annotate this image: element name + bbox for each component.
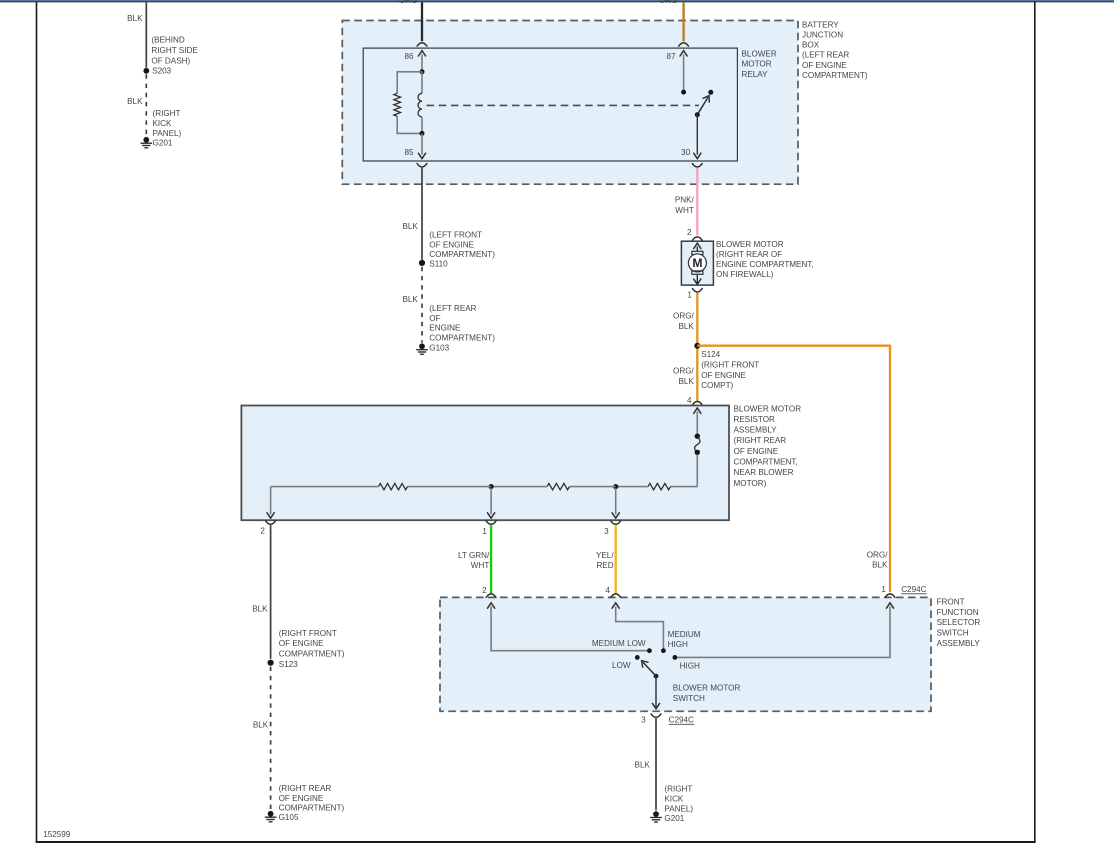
svg-text:C294C: C294C [901,585,926,594]
svg-text:COMPARTMENT,: COMPARTMENT, [734,458,798,467]
svg-text:BLK: BLK [872,560,888,569]
wire to resistor R3 [671,486,698,488]
label BLOWER MOTOR RELAY [742,49,777,79]
svg-text:1: 1 [482,527,487,536]
wire BLK to S203 (from top) [145,2,147,67]
wire BLK dashed S203 to G201 [145,74,147,136]
svg-text:WHT: WHT [675,206,694,215]
svg-text:3: 3 [641,716,646,725]
svg-text:SWITCH: SWITCH [937,629,969,638]
wire contact to pin 30 [696,115,698,155]
connector resistor assembly pin 4 [692,402,702,405]
node coil bottom [420,131,425,136]
arrow into switch pin 1 [886,603,893,608]
arrow into switch pin 2 [488,603,495,608]
splice S123 [268,660,274,666]
label ORG/BLK [673,366,695,386]
svg-text:(RIGHT FRONT: (RIGHT FRONT [279,629,337,638]
svg-text:MEDIUM LOW: MEDIUM LOW [592,639,646,648]
label G103 [429,343,449,352]
wire common to pin 3 [655,676,657,707]
pin number 4 (switch) [605,586,610,595]
arrow out pin 3 [612,513,619,518]
svg-text:C294C: C294C [669,716,694,725]
svg-text:MOTOR: MOTOR [742,60,772,69]
svg-text:(LEFT REAR: (LEFT REAR [802,51,849,60]
svg-text:COMPARTMENT): COMPARTMENT) [802,71,868,80]
front function selector switch assembly box (dashed) [440,597,931,711]
svg-text:FUNCTION: FUNCTION [937,608,979,617]
svg-text:(LEFT REAR: (LEFT REAR [429,304,476,313]
svg-text:PANEL): PANEL) [153,129,182,138]
svg-text:OF ENGINE: OF ENGINE [701,371,746,380]
wire pin 4 to thermal limiter [696,412,698,434]
svg-text:ON FIREWALL): ON FIREWALL) [716,270,774,279]
pin number 2 (blower motor) [687,228,692,237]
arrow into pin 86 [418,51,425,56]
wire ORG feed to relay pin 87 [682,2,684,41]
svg-text:YEL/: YEL/ [596,551,614,560]
svg-text:LOW: LOW [612,661,631,670]
svg-text:(RIGHT FRONT: (RIGHT FRONT [701,360,759,369]
pin number 1 [482,527,487,536]
svg-text:SWITCH: SWITCH [673,694,705,703]
svg-text:85: 85 [404,148,414,157]
wire BLK dashed S123 to G105 [270,667,272,810]
svg-text:ENGINE COMPARTMENT,: ENGINE COMPARTMENT, [716,260,814,269]
pin number 3 [604,527,609,536]
connector switch pin 4 [611,594,621,597]
blower motor box [681,241,713,285]
pin number 1 (switch) [881,585,886,594]
wire pin 2 to MEDIUM LOW contact [491,606,648,651]
svg-text:HIGH: HIGH [680,662,700,671]
connector label C294C [901,585,927,594]
svg-text:OF: OF [429,314,440,323]
svg-text:S203: S203 [152,66,171,75]
label HIGH [680,662,700,671]
label BLK [635,761,651,770]
svg-text:BLK: BLK [678,377,694,386]
splice S124 [694,343,700,349]
diagram frame right border [1034,2,1036,843]
label (LEFT REAR OF ENGINE COMPARTMENT) [429,304,495,342]
wire R2 to node pin 1 [491,486,547,488]
relay contact 30 node [695,112,700,117]
contact LOW [635,655,640,660]
label S123 [279,660,298,669]
wire coil top lead [421,72,423,94]
wire ORG/BLK S124 branch to selector switch [697,346,890,593]
arrow out pin 85 [418,153,425,158]
wire BLK relay 85 to S110 [421,168,423,260]
svg-text:(RIGHT: (RIGHT [664,784,692,793]
wire PNK/WHT relay 30 to blower motor [696,168,698,235]
svg-text:BLOWER MOTOR: BLOWER MOTOR [673,684,741,693]
connector pin 87 [679,43,689,46]
thermal limiter top terminal [695,434,700,439]
svg-text:KICK: KICK [664,794,684,803]
label (RIGHT FRONT OF ENGINE COMPARTMENT) [279,629,345,659]
svg-text:OF ENGINE: OF ENGINE [734,447,779,456]
pin number 2 (switch) [482,586,487,595]
resistor R3 [648,483,671,489]
svg-text:G201: G201 [664,814,684,823]
battery junction box (dashed) [342,21,798,185]
connector label C294C [669,716,695,725]
wire BLK switch pin 3 to G201 [655,718,657,810]
svg-text:S124: S124 [701,350,720,359]
resistor R2 [547,483,570,489]
svg-text:RESISTOR: RESISTOR [734,415,776,424]
splice S110 [419,260,425,266]
svg-text:COMPT): COMPT) [701,381,733,390]
wire branch to relay resistor [397,72,422,94]
svg-text:S123: S123 [279,660,298,669]
svg-text:S110: S110 [429,260,448,269]
relay mechanical linkage (dashed) [427,104,700,106]
svg-text:(RIGHT REAR OF: (RIGHT REAR OF [716,250,782,259]
wire BLK dashed S110 to G103 [421,267,423,343]
connector switch pin 3 [651,714,661,717]
top window border strip [0,0,1114,1]
resistor R1 [379,483,408,489]
svg-text:G201: G201 [153,139,173,148]
svg-text:COMPARTMENT): COMPARTMENT) [429,250,495,259]
label YEL/RED [596,551,614,570]
svg-text:OF ENGINE: OF ENGINE [429,240,474,249]
svg-text:BLK: BLK [252,605,268,614]
svg-text:(BEHIND: (BEHIND [151,36,185,45]
arrow into motor [694,243,701,248]
arrow into switch pin 4 [612,603,619,608]
svg-text:OF ENGINE: OF ENGINE [279,639,324,648]
svg-text:M: M [692,256,702,270]
wire ORG/BLK motor to resistor assembly [696,293,698,401]
arrow out pin 30 [694,153,701,158]
wire pin 1 to HIGH contact [677,606,891,657]
resistor (relay coil suppression) [394,93,401,116]
svg-text:BLOWER: BLOWER [742,49,777,58]
label S203 [152,66,171,75]
label BATTERY JUNCTION BOX (LEFT REAR OF ENGINE COMPARTMENT) [802,20,868,80]
label (BEHIND RIGHT SIDE OF DASH) [151,36,198,66]
svg-text:30: 30 [681,148,691,157]
connector blower motor pin 2 [692,237,702,240]
pin number 1 (blower motor) [687,291,692,300]
label ORG (cut off at top) [659,0,678,5]
switch common node [654,674,659,679]
thermal limiter element [695,437,700,452]
connector blower motor pin 1 [692,289,702,292]
diagram frame left border [36,2,38,843]
svg-text:NEAR BLOWER: NEAR BLOWER [734,468,794,477]
label (LEFT FRONT OF ENGINE COMPARTMENT) [429,231,495,260]
relay switch blade [697,98,707,115]
svg-text:HIGH: HIGH [668,640,688,649]
svg-text:BLK: BLK [127,97,143,106]
arrow on relay blade [703,94,712,102]
pin number 85 [404,148,414,157]
svg-text:4: 4 [605,586,610,595]
arrow into resistor assembly pin 4 [694,408,701,413]
node pin 3 tap [613,484,618,489]
svg-text:ORG: ORG [399,0,418,5]
svg-text:OF DASH): OF DASH) [151,56,190,65]
ground G105 [265,811,277,822]
motor brush bottom [692,271,703,274]
label (RIGHT KICK PANEL) [153,109,182,138]
svg-text:RED: RED [596,561,613,570]
label G105 [279,813,299,822]
wire pin 4 to MEDIUM HIGH contact [616,606,664,649]
svg-text:BLK: BLK [635,761,651,770]
connector pin 30 (below relay) [692,164,702,167]
pin number 3 (switch) [641,716,646,725]
arrow on switch blade (points to LOW) [639,658,648,667]
label (RIGHT REAR OF ENGINE COMPARTMENT) [279,784,345,812]
wire motor lead bottom [696,274,698,283]
svg-text:(RIGHT: (RIGHT [153,109,181,118]
svg-text:OF ENGINE: OF ENGINE [802,61,847,70]
svg-text:BLOWER MOTOR: BLOWER MOTOR [716,240,784,249]
svg-text:BOX: BOX [802,41,820,50]
wire drop to pin 3 [615,488,617,514]
connector pin 85 (below relay) [417,164,427,167]
label MEDIUM HIGH [668,630,701,649]
svg-text:BATTERY: BATTERY [802,20,839,29]
wire node to pin 85 [421,133,423,154]
arrow into pin 87 [680,51,687,56]
arrow out switch pin 3 [652,703,659,708]
relay contact 87 [681,90,686,95]
svg-text:BLK: BLK [127,14,143,23]
svg-text:1: 1 [881,585,886,594]
label MEDIUM LOW [592,639,646,648]
wire node to resistor R1 [408,486,492,488]
svg-text:G105: G105 [279,813,299,822]
label S110 [429,260,448,269]
label LOW [612,661,631,670]
arrow out pin 2 [267,513,274,518]
thermal limiter bottom terminal [695,450,700,455]
wire inside relay pin 86 to coil [421,54,423,72]
connector resistor assembly pin 2 [266,521,276,524]
wire R1 to pin 2 drop [271,486,379,488]
node coil top [420,69,425,74]
svg-text:PNK/: PNK/ [675,195,695,204]
connector switch pin 2 [486,594,496,597]
label BLK [402,295,418,304]
svg-text:PANEL): PANEL) [664,804,693,813]
label BLOWER MOTOR (RIGHT REAR OF ENGINE COMPARTMENT, ON FIREWALL) [716,240,814,279]
svg-text:COMPARTMENT): COMPARTMENT) [279,803,345,812]
svg-text:2: 2 [260,527,265,536]
svg-text:ORG/: ORG/ [673,366,695,375]
pin number 2 [260,527,265,536]
wire drop to pin 2 [270,487,272,515]
svg-text:ORG: ORG [659,0,678,5]
connector resistor assembly pin 1 [486,521,496,524]
relay coil L1 [418,93,422,117]
svg-text:ENGINE: ENGINE [429,324,461,333]
svg-text:ASSEMBLY: ASSEMBLY [734,426,778,435]
wire relay resistor to node [397,116,422,133]
blower motor relay box [363,48,737,161]
svg-text:RIGHT SIDE: RIGHT SIDE [151,46,198,55]
svg-text:BLK: BLK [678,322,694,331]
svg-text:BLK: BLK [253,720,269,729]
label BLK [127,97,143,106]
wire BLK resistor pin 2 to S123 [270,525,272,659]
wire coil bottom lead [421,117,423,133]
ground G201 (bottom) [650,811,662,822]
contact HIGH [673,655,678,660]
motor M1 armature [688,254,706,272]
label (RIGHT KICK PANEL) [664,784,693,813]
svg-text:BLOWER MOTOR: BLOWER MOTOR [734,404,802,413]
svg-text:SELECTOR: SELECTOR [937,618,981,627]
motor brush top [692,251,703,254]
wire thermal limiter to resistor chain [696,455,698,487]
svg-text:WHT: WHT [471,561,490,570]
connector pin 86 [417,43,427,46]
pin number 30 [681,148,691,157]
label ORG/BLK [673,311,695,331]
label G201 [664,814,684,823]
svg-text:3: 3 [604,527,609,536]
svg-text:BLK: BLK [402,295,418,304]
label M (motor) [692,256,702,270]
wire R3 to node pin 3 [616,486,648,488]
svg-text:KICK: KICK [153,119,173,128]
svg-text:COMPARTMENT): COMPARTMENT) [279,650,345,659]
svg-text:COMPARTMENT): COMPARTMENT) [429,333,495,342]
ground G103 [416,343,428,354]
relay contact (blade tip rest) [708,90,713,95]
wire YEL/RED to selector switch [615,525,617,594]
svg-text:RELAY: RELAY [742,70,769,79]
label BLOWER MOTOR SWITCH [673,684,741,703]
label PNK/WHT [675,195,695,214]
svg-text:(LEFT FRONT: (LEFT FRONT [429,231,482,240]
label BLK [252,605,268,614]
node pin 1 tap [489,484,494,489]
svg-text:1: 1 [687,291,692,300]
svg-text:ORG/: ORG/ [673,311,695,320]
pin number 4 (resistor assembly) [687,396,692,405]
svg-text:(RIGHT REAR: (RIGHT REAR [734,436,787,445]
arrow out of motor [694,279,701,284]
wire inside relay pin 87 to contact [683,54,685,92]
diagram frame bottom border [36,841,1036,843]
svg-text:4: 4 [687,396,692,405]
svg-text:2: 2 [687,228,692,237]
figure number 152599 [43,830,71,839]
svg-text:BLK: BLK [402,222,418,231]
pin number 86 [404,52,414,61]
svg-text:152599: 152599 [43,830,71,839]
svg-text:ORG/: ORG/ [867,550,889,559]
svg-text:MEDIUM: MEDIUM [668,630,701,639]
connector resistor assembly pin 3 [611,521,621,524]
pin number 87 [666,52,676,61]
wire drop to pin 1 [490,488,492,514]
wire ORG feed to relay pin 86 [421,2,423,41]
label BLK [127,14,143,23]
contact MEDIUM LOW [647,648,652,653]
svg-text:2: 2 [482,586,487,595]
svg-text:G103: G103 [429,343,449,352]
blower motor resistor assembly box [241,406,729,521]
contact MEDIUM HIGH [661,648,666,653]
wire LT GRN/WHT to selector switch [490,525,492,594]
label BLK [402,222,418,231]
svg-text:JUNCTION: JUNCTION [802,31,843,40]
svg-text:MOTOR): MOTOR) [734,479,767,488]
label FRONT FUNCTION SELECTOR SWITCH ASSEMBLY [937,598,981,648]
label G201 [153,139,173,148]
label S124 (RIGHT FRONT OF ENGINE COMPT) [701,350,759,390]
svg-text:OF ENGINE: OF ENGINE [279,794,324,803]
svg-text:87: 87 [666,52,676,61]
label LT GRN/WHT [458,551,490,570]
arrow out pin 1 [488,513,495,518]
ground G201 [141,137,153,148]
svg-text:FRONT: FRONT [937,598,965,607]
svg-text:LT GRN/: LT GRN/ [458,551,490,560]
label BLOWER MOTOR RESISTOR ASSEMBLY (RIGHT REAR OF ENGINE COMPARTMENT, NEAR BLOWER MOTOR) [734,404,802,488]
svg-text:86: 86 [404,52,414,61]
wire node to resistor R2 [570,486,616,488]
blower motor switch blade [644,663,657,676]
label BLK [253,720,269,729]
connector switch pin 1 [885,594,895,597]
label ORG/BLK [867,550,889,569]
svg-text:ASSEMBLY: ASSEMBLY [937,639,981,648]
label ORG (cut off at top) [399,0,418,5]
svg-text:(RIGHT REAR: (RIGHT REAR [279,784,332,793]
splice S203 [143,68,149,74]
wire motor lead top [696,247,698,252]
